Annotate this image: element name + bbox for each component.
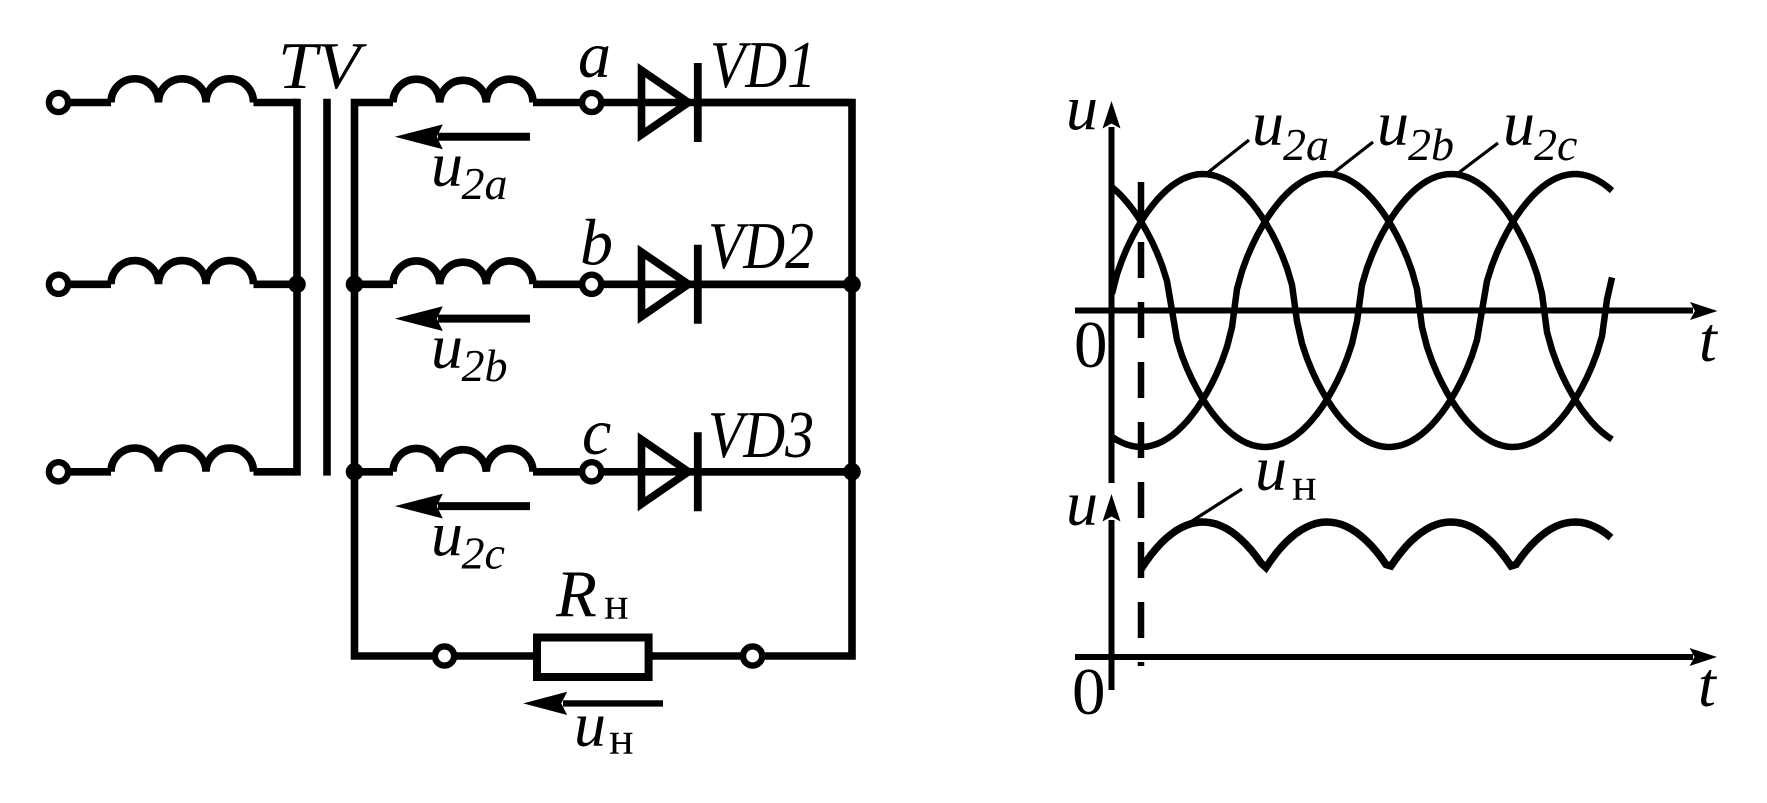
primary winding W11: [111, 79, 254, 103]
svg-text:u: u: [1252, 88, 1284, 159]
label TV: [278, 29, 367, 103]
svg-text:u: u: [1377, 88, 1409, 159]
node a terminal: [582, 93, 601, 112]
wire node a to diode bus: [533, 99, 852, 107]
svg-text:н: н: [604, 578, 629, 629]
svg-text:u: u: [431, 311, 463, 382]
secondary winding W2c: [393, 448, 533, 471]
svg-text:0: 0: [1074, 308, 1108, 382]
wire primary row 2: [59, 280, 112, 288]
svg-text:u: u: [431, 499, 463, 570]
svg-text:VD3: VD3: [708, 398, 814, 472]
label Rn: [555, 557, 629, 631]
junction cathode bus row 2: [843, 276, 861, 294]
label u2b: [431, 311, 508, 391]
svg-text:TV: TV: [278, 29, 367, 103]
primary winding W12: [111, 261, 254, 285]
arrow u2b: [395, 306, 530, 331]
label VD1: [710, 28, 816, 102]
resistor Rn: [537, 638, 649, 678]
curve u2b: [1112, 174, 1612, 447]
diode VD2: [642, 245, 698, 324]
leader u2a: [1206, 140, 1249, 174]
label un: [574, 689, 634, 764]
junction secondary bus row 3: [346, 463, 364, 481]
svg-text:н: н: [609, 713, 634, 764]
label u2c: [431, 499, 505, 579]
input terminal 2: [49, 275, 68, 294]
secondary winding W2b: [393, 261, 533, 284]
curve u2a: [1112, 174, 1612, 447]
svg-text:2a: 2a: [462, 158, 508, 209]
secondary winding W2a: [393, 79, 533, 102]
wire secondary bus to coil row 3: [355, 468, 394, 476]
node b terminal: [582, 275, 601, 294]
svg-text:2b: 2b: [462, 340, 508, 391]
bottom plot label t: [1698, 649, 1718, 720]
svg-text:2c: 2c: [1534, 119, 1577, 170]
arrow u2c: [395, 494, 530, 519]
svg-text:u: u: [1066, 468, 1098, 539]
label u2b plot: [1377, 88, 1454, 170]
wire secondary bus: [355, 103, 538, 657]
svg-text:VD1: VD1: [710, 28, 816, 102]
bottom plot label 0: [1072, 655, 1106, 729]
wire node c to diode bus: [533, 468, 852, 476]
wire cathode bus row 3: [701, 468, 852, 476]
svg-text:b: b: [580, 207, 613, 280]
leader u2c: [1457, 143, 1498, 174]
svg-text:c: c: [582, 396, 611, 469]
top plot t axis: [1075, 302, 1718, 320]
primary winding W13: [111, 448, 254, 472]
svg-text:t: t: [1698, 649, 1718, 720]
diode VD3: [642, 432, 698, 511]
svg-text:R: R: [555, 557, 597, 631]
label u2a: [431, 129, 508, 209]
leader un: [1192, 489, 1242, 521]
label un plot: [1255, 433, 1317, 510]
top plot label u: [1066, 73, 1098, 144]
wire primary bus: [293, 99, 301, 476]
top plot label 0: [1074, 308, 1108, 382]
svg-text:2c: 2c: [462, 528, 505, 579]
svg-text:u: u: [431, 129, 463, 200]
junction cathode bus row 3: [843, 463, 861, 481]
arrow u2a: [395, 124, 530, 149]
svg-text:н: н: [1292, 459, 1317, 510]
load terminal right: [743, 646, 762, 665]
top plot label t: [1699, 304, 1719, 375]
label VD2: [708, 209, 814, 283]
label node c: [582, 396, 611, 469]
label u2c plot: [1503, 88, 1577, 170]
arrow un: [523, 692, 663, 715]
input terminal 3: [49, 462, 68, 481]
load terminal left: [435, 646, 454, 665]
bottom plot u axis: [1103, 494, 1121, 690]
svg-text:0: 0: [1072, 655, 1106, 729]
leader u2b: [1332, 142, 1373, 174]
wire node b to diode bus: [533, 280, 852, 288]
wire primary row 3: [59, 468, 112, 476]
transformer core TV: [323, 99, 331, 476]
wire secondary bus to coil row 2: [355, 280, 394, 288]
label node a: [578, 19, 611, 92]
svg-text:a: a: [578, 19, 611, 92]
bottom plot t axis: [1075, 648, 1717, 666]
junction secondary bus row 2: [346, 276, 364, 294]
bottom plot label u: [1066, 468, 1098, 539]
svg-text:2b: 2b: [1408, 119, 1454, 170]
node c terminal: [582, 462, 601, 481]
curve u2c: [1112, 174, 1612, 447]
svg-text:u: u: [1503, 88, 1535, 159]
label u2a plot: [1252, 88, 1329, 170]
wire cathode bus row 2: [701, 280, 852, 288]
input terminal 1: [49, 93, 68, 112]
svg-text:u: u: [1066, 73, 1098, 144]
svg-text:t: t: [1699, 304, 1719, 375]
wire primary row 1: [59, 99, 112, 107]
wire cathode bus: [648, 103, 852, 657]
label VD3: [708, 398, 814, 472]
svg-text:2a: 2a: [1283, 119, 1329, 170]
svg-text:u: u: [1255, 433, 1287, 504]
top plot u axis: [1103, 101, 1121, 483]
label node b: [580, 207, 613, 280]
wire primary coil to bus row 3: [254, 468, 298, 476]
wire primary coil to bus row 2: [254, 280, 298, 288]
junction primary bus row 2: [288, 276, 306, 294]
dashed commutation line: [1138, 182, 1145, 666]
curve un rectified: [1141, 522, 1611, 569]
wire primary coil to bus row 1: [254, 99, 298, 107]
svg-text:VD2: VD2: [708, 209, 814, 283]
diode VD1: [642, 63, 698, 142]
svg-text:u: u: [574, 689, 606, 760]
